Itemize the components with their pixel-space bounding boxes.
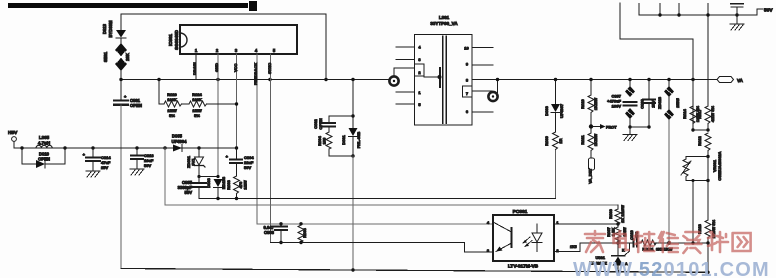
resistor R813 — [697, 219, 716, 243]
resistor R812 — [697, 133, 711, 158]
wire bottom bus — [121, 269, 708, 273]
diode D808 — [206, 176, 226, 198]
svg-text:9V1: 9V1 — [191, 158, 196, 166]
svg-text:L805: L805 — [39, 135, 50, 140]
diode D801 — [341, 128, 361, 158]
wire primary bus y=80 — [121, 79, 390, 81]
inductor L805 — [36, 135, 52, 148]
ground C814 — [86, 171, 100, 177]
wire P bottom rail — [199, 198, 556, 200]
wire rail drop to wire Q — [164, 148, 166, 205]
svg-text:R808: R808 — [302, 227, 307, 237]
svg-text:R806: R806 — [608, 208, 613, 218]
svg-text:25R5: 25R5 — [675, 97, 680, 107]
svg-text:1K 1/10W: 1K 1/10W — [620, 205, 625, 223]
transformer left stubs — [396, 46, 415, 48]
svg-text:DRAIN: DRAIN — [192, 62, 197, 75]
resistor R806 — [608, 205, 625, 224]
pin 4 FEEDBACK — [253, 54, 258, 224]
svg-text:20K: 20K — [125, 53, 130, 61]
wire D sync to opto — [271, 243, 494, 253]
wire to ground node — [630, 126, 649, 128]
terminal ring secondary — [488, 80, 497, 102]
node at 326 on bus — [324, 78, 327, 81]
resistor R811 — [580, 133, 598, 158]
resistor R820 — [159, 80, 182, 118]
resistor R804 — [317, 132, 353, 156]
svg-text:UF4004: UF4004 — [172, 139, 188, 144]
svg-text:4.7uH: 4.7uH — [38, 141, 50, 146]
wire top-left to R814 column — [620, 3, 693, 130]
pin 3 VCC — [233, 54, 238, 148]
svg-text:L801: L801 — [439, 15, 450, 20]
node wire U801 network — [618, 242, 632, 244]
svg-text:D808: D808 — [206, 177, 211, 187]
svg-text:OPEN: OPEN — [318, 118, 323, 129]
top black bar — [8, 3, 248, 8]
connector VA_DET — [588, 158, 595, 184]
svg-text:FEEDBACK: FEEDBACK — [253, 63, 258, 85]
svg-text:10: 10 — [464, 46, 469, 51]
diode D806 — [544, 80, 564, 132]
optocoupler PC801 — [487, 209, 560, 270]
svg-text:R811: R811 — [580, 135, 585, 145]
wire node to col7 — [693, 129, 708, 131]
capacitor C816 — [731, 4, 743, 15]
capacitor C804 — [226, 148, 255, 176]
wire VR wiper drop — [692, 181, 694, 244]
wire top right bus — [639, 14, 757, 16]
svg-text:D813: D813 — [102, 23, 107, 34]
svg-text:4/1W 5%: 4/1W 5% — [710, 105, 715, 122]
op-amp IC801 box — [168, 25, 297, 54]
wire C801 column down to bottom bus — [120, 105, 122, 269]
wire snubber to bottom bus — [352, 156, 354, 270]
svg-text:5%: 5% — [194, 113, 200, 118]
capacitor C805 — [178, 177, 206, 199]
capacitor C801 — [114, 80, 142, 108]
capacitor C814 — [83, 148, 112, 171]
svg-text:CWEUA43062A: CWEUA43062A — [717, 151, 722, 180]
snubber column wire — [352, 80, 354, 128]
resistor R814 — [682, 105, 700, 123]
svg-text:1K5: 1K5 — [570, 245, 577, 249]
svg-text:100V: 100V — [612, 104, 622, 109]
svg-text:ZD813: ZD813 — [657, 96, 662, 109]
svg-text:1K/2W: 1K/2W — [593, 98, 598, 110]
node VA tag — [717, 77, 744, 84]
svg-text:25V: 25V — [651, 100, 656, 107]
wire col7 — [707, 157, 709, 221]
ground top right — [730, 15, 744, 30]
diode D813 — [102, 20, 126, 44]
wire ZD to D808 — [199, 176, 218, 178]
wire Q H5V feed — [165, 204, 618, 206]
svg-text:1R: 1R — [558, 138, 563, 143]
svg-text:D801: D801 — [341, 134, 346, 144]
svg-text:D805: D805 — [172, 134, 183, 139]
transformer L801 — [415, 15, 473, 125]
svg-text:100K: 100K — [192, 97, 202, 102]
svg-text:50V: 50V — [244, 165, 251, 170]
wire top primary — [121, 14, 326, 80]
svg-text:100: 100 — [322, 137, 327, 144]
zener diamond pair ZD813 — [657, 80, 680, 120]
pin 2 GND — [214, 54, 219, 176]
svg-text:1K/2W: 1K/2W — [593, 134, 598, 146]
svg-text:50V: 50V — [144, 163, 151, 168]
svg-text:OPEN: OPEN — [130, 103, 142, 108]
svg-text:1/2W: 1/2W — [243, 180, 248, 190]
resistor R803 — [226, 176, 248, 199]
svg-text:33YTP90_VA: 33YTP90_VA — [430, 21, 458, 26]
wire 56V column down — [707, 15, 709, 106]
resistor R8201 — [638, 240, 673, 252]
svg-text:SYNC: SYNC — [267, 63, 272, 74]
watermark chinese — [585, 231, 751, 253]
svg-text:100K: 100K — [167, 97, 177, 102]
svg-text:VCC: VCC — [233, 63, 238, 72]
diode D805 — [172, 134, 188, 152]
node PROT arrow — [593, 124, 617, 130]
svg-text:BYD33M: BYD33M — [108, 20, 113, 37]
svg-text:LTV-817M-VB: LTV-817M-VB — [508, 264, 539, 270]
resistor R824 — [182, 92, 239, 118]
watermark url — [573, 259, 770, 278]
pin 5 SYNC — [267, 54, 272, 243]
node 56V — [757, 8, 773, 16]
ground — [623, 127, 637, 141]
node dots on primary bus — [119, 78, 122, 81]
svg-text:FHL-03B: FHL-03B — [356, 132, 361, 149]
svg-text:C808: C808 — [640, 98, 645, 108]
svg-text:R812: R812 — [697, 135, 702, 145]
resistor R807 — [606, 224, 627, 245]
node H5V input — [8, 130, 22, 148]
capacitor C802 — [313, 116, 353, 132]
svg-text:SE01: SE01 — [103, 51, 108, 62]
svg-text:C803: C803 — [264, 230, 275, 235]
wire D813 column — [120, 14, 122, 30]
resistor R808 — [298, 224, 307, 244]
capacitor C803 — [264, 224, 287, 244]
svg-text:PROT: PROT — [606, 126, 617, 130]
svg-text:R817: R817 — [697, 108, 702, 118]
svg-text:H5V: H5V — [8, 130, 18, 136]
wire ZD column to feedback node — [668, 120, 670, 243]
zener ZD801 — [186, 148, 205, 178]
wire pin2 to ring — [394, 68, 415, 76]
capacitor C813 — [131, 148, 154, 169]
svg-text:25V: 25V — [101, 165, 108, 170]
svg-text:R810: R810 — [580, 98, 585, 108]
svg-text:R814: R814 — [682, 108, 687, 118]
resistor R810 — [580, 80, 598, 133]
potentiometer VR801 — [681, 151, 722, 182]
capacitor C808 — [640, 80, 656, 127]
surge absorber SE01 — [103, 43, 130, 80]
wire H5V rail — [14, 147, 237, 149]
svg-text:VA: VA — [737, 78, 744, 83]
svg-text:OPEN: OPEN — [38, 157, 50, 162]
svg-text:GND: GND — [214, 63, 219, 72]
wire secondary bus — [472, 79, 717, 81]
svg-text:IC801: IC801 — [168, 34, 173, 47]
wire opto pin2 step — [554, 243, 618, 251]
svg-text:56V: 56V — [764, 8, 773, 14]
pin 1 DRAIN — [192, 54, 197, 80]
transformer right stubs — [472, 47, 493, 49]
wire feedback branch — [257, 223, 493, 225]
svg-text:VA_DET: VA_DET — [588, 168, 593, 184]
wire pin7 to ring — [472, 90, 492, 92]
svg-text:UF4007: UF4007 — [559, 103, 564, 118]
ground C813 — [130, 169, 144, 175]
svg-text:D806: D806 — [544, 105, 549, 115]
zener diamond pair with capacitor C807 — [607, 80, 636, 129]
svg-text:R809: R809 — [544, 135, 549, 145]
resistor R809 — [544, 132, 563, 199]
terminal ring primary — [389, 76, 398, 85]
capacitor C810 — [629, 229, 639, 246]
svg-text:50V: 50V — [185, 190, 193, 195]
resistor R817 — [697, 105, 715, 130]
svg-text:R803: R803 — [226, 179, 231, 189]
diode D810 — [22, 148, 65, 168]
svg-text:5%: 5% — [169, 113, 175, 118]
wire opto pin1 — [554, 223, 618, 225]
svg-text:SG6848D: SG6848D — [174, 29, 179, 50]
shunt regulator U801 — [589, 243, 629, 272]
